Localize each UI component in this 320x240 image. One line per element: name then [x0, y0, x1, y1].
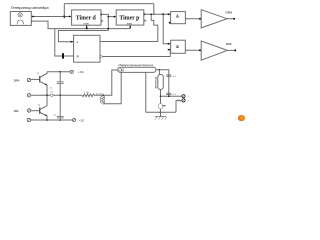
- svg-text:reset: reset: [84, 22, 89, 25]
- buffer A1 triangle: [201, 10, 227, 28]
- wire U2 out to AND1: [144, 13, 171, 15]
- svg-text:Генератор меандра: Генератор меандра: [11, 5, 50, 10]
- wire riser to AND2 in1: [163, 14, 170, 44]
- wire to resonator: [159, 70, 161, 75]
- node bus-riser: [102, 95, 104, 97]
- +DC rail: [47, 71, 70, 73]
- terminal +DC: [70, 70, 73, 73]
- wire out B: [176, 100, 182, 112]
- svg-text:DRH: DRH: [14, 79, 20, 83]
- wire feedback riser right: [153, 4, 155, 15]
- wire output row A: [161, 95, 183, 97]
- marker orange: [238, 115, 245, 122]
- jack circle: [50, 94, 53, 97]
- svg-text:DRL: DRL: [14, 109, 20, 113]
- generator pin2 marker: [32, 20, 34, 22]
- wire gen pin2 to reset bus: [34, 21, 130, 29]
- buffer A2 triangle: [201, 41, 227, 60]
- wire staircase to latch right: [100, 14, 158, 41]
- ground: [155, 116, 167, 118]
- wire riser to S-row: [107, 17, 109, 31]
- wire coil bottom to sensor tap: [103, 72, 121, 104]
- gate D1 in2 marker: [169, 22, 171, 24]
- latch Qbar bubble: [100, 55, 102, 57]
- svg-text:G: G: [19, 13, 21, 17]
- output bus: [31, 94, 51, 96]
- node timer U1 out: [100, 13, 102, 15]
- wire X1 to T1 base: [31, 78, 40, 80]
- timer U1 reset stub: [86, 25, 88, 28]
- wire latch Qbar to AND2 in2: [102, 50, 170, 57]
- svg-text:reset: reset: [127, 22, 132, 25]
- wire U1 out jog to U2 in: [101, 14, 116, 16]
- wire to ground: [160, 109, 162, 117]
- bottom rail: [31, 119, 73, 121]
- wire DRL out: [227, 49, 235, 51]
- wire sensor out to cap chain: [156, 70, 169, 96]
- wire feedback riser left: [63, 4, 65, 17]
- terminal out A: [182, 95, 185, 98]
- timer U2 reset stub: [129, 25, 131, 29]
- sensor L2 pill: [118, 67, 156, 72]
- terminal X4: [27, 118, 30, 121]
- timer U1 out2 marker: [101, 20, 103, 22]
- timer U2 out2 marker: [144, 20, 146, 22]
- timer U1 box: [72, 10, 101, 25]
- input bar marker: [62, 53, 64, 58]
- generator G symbol: [18, 13, 22, 17]
- bottom bus: [146, 111, 176, 113]
- capacitor C4b: [166, 92, 171, 94]
- node feedback junction: [63, 15, 65, 18]
- svg-text:+ DC: + DC: [78, 70, 84, 74]
- terminal X3: [27, 109, 30, 112]
- wire bar to R: [64, 55, 74, 57]
- node timer U2 out: [144, 13, 146, 15]
- wire DRH out: [227, 18, 234, 20]
- node gen out1: [32, 16, 34, 18]
- latch U3 box: [74, 35, 100, 62]
- wire D2 out to buffer: [185, 49, 201, 51]
- wire D1 out to buffer: [185, 18, 201, 20]
- node riser tap: [162, 13, 164, 15]
- capacitor C3: [166, 74, 171, 76]
- wire arrow into Timer d: [69, 16, 71, 18]
- trimmer R2: [159, 104, 163, 110]
- svg-text:резонатор: резонатор: [155, 76, 158, 88]
- terminal X1: [27, 78, 30, 81]
- wire resonator to trimmer: [160, 90, 162, 104]
- capacitor C1 chain top: [59, 72, 61, 82]
- node output row: [160, 95, 162, 97]
- generator G1 box: [10, 12, 31, 26]
- capacitor C2 chain bottom: [59, 95, 61, 116]
- wire R feed drop: [55, 29, 62, 56]
- gate D1 box: [171, 12, 186, 24]
- wire X3 to T2 base: [31, 110, 40, 112]
- wire bus to sensor riser: [103, 70, 118, 95]
- terminal X2: [27, 94, 30, 97]
- generator meander hump: [17, 20, 23, 24]
- svg-text:&: &: [176, 44, 179, 49]
- wire feedback top: [64, 3, 154, 5]
- svg-text:&: &: [176, 13, 179, 18]
- wire gen out1 to Timer d: [31, 16, 71, 18]
- gate D2 box: [171, 40, 186, 53]
- svg-text:DRH: DRH: [226, 10, 233, 14]
- svg-text:DRL: DRL: [226, 42, 232, 46]
- svg-text:Измерительный датчик: Измерительный датчик: [118, 63, 153, 67]
- timer U2 box: [116, 10, 144, 25]
- terminal -DC: [72, 118, 75, 121]
- resonator pill: [158, 74, 164, 89]
- sensor tap circle: [120, 68, 124, 72]
- node rail cap: [59, 71, 61, 73]
- wire S-row to latch: [58, 31, 108, 42]
- svg-text:Timer d: Timer d: [76, 15, 97, 21]
- svg-text:– DC: – DC: [79, 118, 85, 122]
- terminal out B: [182, 99, 185, 102]
- wire sensor drop: [145, 72, 147, 112]
- svg-text:Timer p: Timer p: [119, 15, 139, 21]
